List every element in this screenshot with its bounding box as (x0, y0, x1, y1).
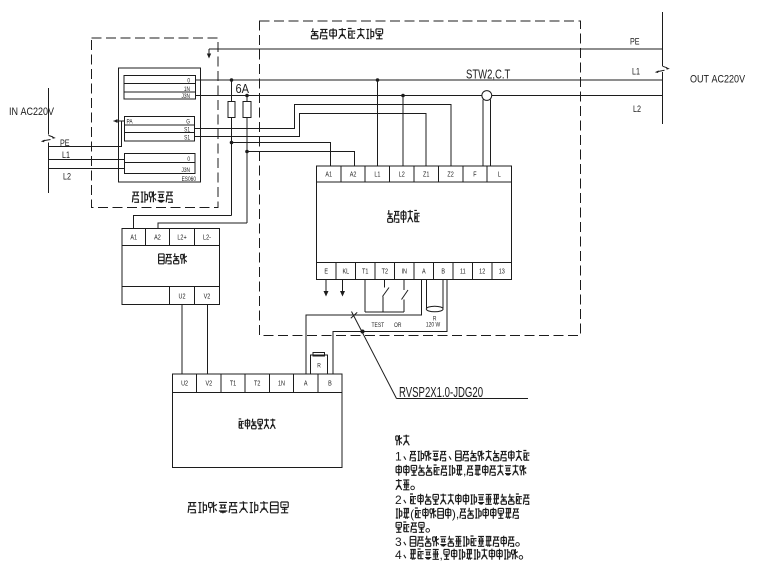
label 绝缘监视仪 (387, 210, 392, 222)
svg-text:L2: L2 (399, 171, 406, 179)
svg-text:3: 3 (395, 535, 402, 549)
label note line 1 (396, 435, 410, 446)
svg-text:OUT AC220V: OUT AC220V (690, 74, 745, 86)
wire T1 to test bus (364, 280, 366, 313)
transformer T1 secondary winding (0/1N/J3N) (124, 76, 196, 101)
svg-text:2: 2 (395, 493, 402, 507)
wire F1 to PSU A1 (134, 216, 232, 229)
transformer T1 shield winding (PA/G/S1/S1) (125, 117, 195, 142)
junction L2 bus to monitor (401, 94, 405, 98)
label note line 8 (395, 535, 519, 549)
svg-text:A2: A2 (350, 171, 357, 179)
svg-text:,: , (463, 464, 466, 478)
label note line 5 (395, 493, 529, 507)
svg-text:T1: T1 (230, 380, 237, 388)
wire PSU U2 to alarm U2 (181, 305, 183, 375)
fuse F2 6A (243, 96, 251, 224)
svg-text:J3N: J3N (181, 94, 190, 101)
label note line 7 (396, 522, 429, 532)
transformer T1 primary winding (0/J3N) (125, 154, 196, 175)
svg-text:11: 11 (460, 268, 466, 276)
junction L1 bus to monitor (376, 78, 380, 82)
op-amp: insulation monitor U1 绝缘监视仪 (317, 166, 512, 280)
label note line 9 (395, 548, 523, 562)
svg-text:1: 1 (395, 450, 402, 464)
wire L2 bus to monitor L2 (402, 96, 404, 167)
arrow PE into PA terminal (114, 120, 125, 122)
wire PE in to transformer PA (49, 121, 122, 147)
wire L2 bus (transformer J3N to OUT) (195, 95, 663, 97)
svg-text:S1: S1 (184, 127, 190, 134)
switch OR (IN) (402, 280, 409, 313)
svg-text:V2: V2 (204, 293, 211, 301)
svg-text:R: R (317, 363, 321, 370)
current transformer STW2 C.T (482, 91, 492, 101)
break symbol on IN bar (49, 135, 54, 137)
svg-text:0: 0 (187, 157, 190, 164)
svg-text:120 W: 120 W (426, 322, 441, 329)
wire L1 bus to monitor L1 (377, 80, 379, 166)
ground arrow E (325, 280, 327, 293)
svg-text:0: 0 (187, 78, 190, 85)
wire PE bus to OUT (209, 48, 663, 50)
svg-text:OR: OR (394, 323, 401, 330)
label note line 3 (396, 464, 526, 478)
wire monitor A to alarm A (306, 280, 422, 375)
svg-text:E: E (324, 268, 328, 276)
junction fuse F2 branch (245, 150, 249, 154)
svg-text:13: 13 (499, 268, 506, 276)
svg-text:B: B (328, 380, 332, 388)
svg-text:U2: U2 (181, 380, 188, 388)
label note line 4 (396, 479, 415, 490)
svg-text:RVSP2X1.0-JDG20: RVSP2X1.0-JDG20 (399, 384, 483, 401)
junction on L1 bus (fuse F1) (230, 78, 234, 82)
wire F1 to monitor A1 (232, 143, 331, 167)
svg-text:TEST: TEST (372, 323, 385, 330)
label 绝缘监视仪连线图 (title) (311, 28, 383, 39)
label 隔离变压器 (132, 191, 173, 203)
svg-text:Z1: Z1 (423, 171, 430, 179)
svg-text:T2: T2 (254, 380, 261, 388)
svg-text:T1: T1 (362, 268, 369, 276)
svg-text:Z2: Z2 (447, 171, 454, 179)
resistor R 120 ohm (bus terminator at monitor) (426, 280, 443, 329)
svg-text:KL: KL (342, 268, 349, 276)
wire PSU V2 to alarm V2 (207, 305, 209, 375)
svg-text:A2: A2 (154, 234, 161, 242)
svg-text:S1: S1 (184, 135, 190, 142)
wire CT pair to monitor F and L (482, 100, 484, 167)
svg-text:L2: L2 (63, 172, 71, 182)
svg-text:T2: T2 (382, 268, 389, 276)
svg-text:PE: PE (630, 37, 640, 47)
svg-text:F: F (473, 171, 476, 179)
power supply PSU 专用电源 (122, 229, 220, 305)
wire OUT supply bar (662, 12, 664, 66)
wire IN supply bar (48, 88, 50, 135)
resistor R (terminator at alarm display) (311, 353, 328, 375)
svg-text:,: , (440, 548, 443, 562)
wire L1 bus (transformer 0 to OUT) (196, 79, 663, 81)
wire L1 in (49, 159, 125, 161)
svg-text:L2: L2 (633, 104, 641, 114)
svg-text:PA: PA (127, 119, 133, 126)
wire test bus (365, 311, 404, 313)
switch TEST (T2) (383, 280, 390, 313)
svg-text:V2: V2 (205, 380, 212, 388)
alarm display 外接报警显示 (173, 374, 343, 468)
svg-text:ES060: ES060 (182, 177, 196, 184)
label 隔离变压器连线示意图 (caption) (188, 501, 288, 513)
cable callout RVSP2X1.0-JDG20 (351, 312, 528, 401)
svg-text:4: 4 (395, 548, 402, 562)
svg-text:L1: L1 (62, 150, 70, 160)
svg-text:STW2,C.T: STW2,C.T (466, 68, 510, 82)
svg-text:1N: 1N (278, 380, 285, 388)
wire monitor B to alarm B (333, 280, 447, 375)
transformer T1 case (119, 68, 201, 182)
label 专用电源 (159, 254, 165, 264)
wire shield S1 (lower) to monitor Z1 (195, 114, 427, 167)
svg-text:L: L (498, 171, 501, 179)
transformer T1 enclosure (dashed box) (92, 38, 219, 208)
svg-text:1N: 1N (184, 87, 190, 94)
label note line 6 (396, 507, 519, 521)
svg-text:A1: A1 (325, 171, 332, 179)
wire F2 to monitor A2 (247, 152, 355, 167)
svg-text:G: G (186, 119, 190, 126)
svg-text:L1: L1 (374, 171, 381, 179)
label note line 2 (395, 450, 529, 464)
svg-text:),: ), (452, 507, 459, 521)
svg-text:IN: IN (401, 268, 407, 276)
svg-text:12: 12 (479, 268, 486, 276)
svg-text:L2+: L2+ (177, 234, 187, 242)
wire F2 to PSU A2 (158, 223, 247, 229)
break symbol on OUT bar (663, 66, 668, 68)
svg-text:6A: 6A (236, 81, 250, 96)
svg-text:B: B (441, 268, 445, 276)
svg-text:L2-: L2- (203, 234, 211, 242)
label 外接报警显示 (239, 419, 244, 428)
junction fuse F1 branch (230, 141, 234, 145)
svg-text:J3N: J3N (181, 168, 190, 175)
enclosure 绝缘监视仪连线图 (dashed box) (260, 21, 581, 336)
svg-text:(: ( (410, 507, 414, 521)
svg-text:IN AC220V: IN AC220V (9, 106, 54, 118)
svg-text:A1: A1 (130, 234, 137, 242)
arrow PE bond to transformer enclosure (208, 49, 210, 55)
ground arrow KL (342, 280, 344, 293)
junction on L2 bus (fuse F2) (245, 94, 249, 98)
wire shield S1 (upper) to monitor Z2 (195, 105, 452, 167)
wire L2 in (49, 168, 125, 170)
svg-text:L1: L1 (632, 67, 640, 77)
fuse F1 6A (228, 80, 235, 216)
svg-text:U2: U2 (179, 293, 186, 301)
